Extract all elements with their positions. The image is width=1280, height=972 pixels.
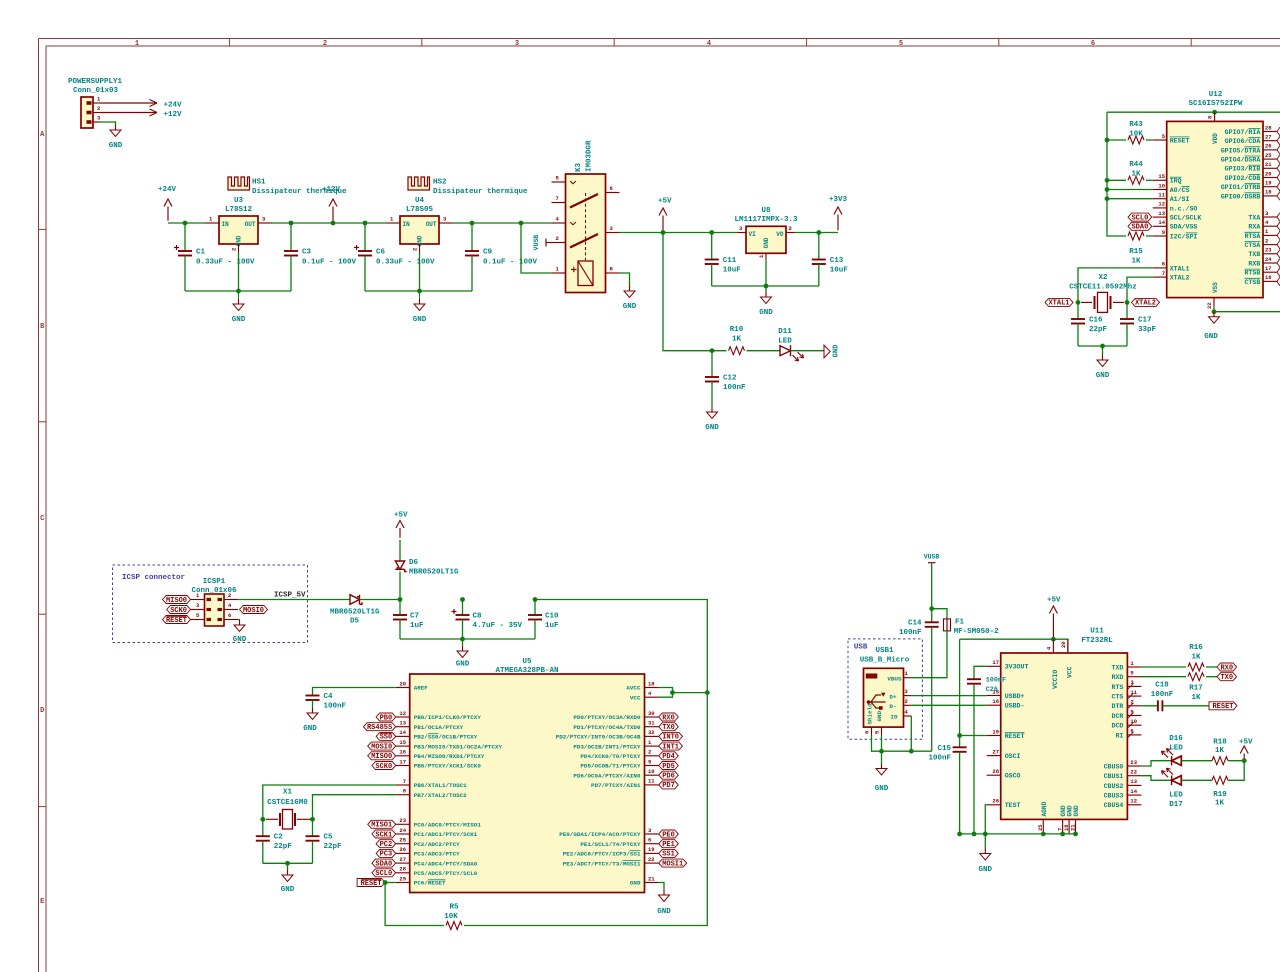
svg-text:RESET: RESET [361,880,382,888]
net label SDA0 u5 [372,859,396,868]
wire X1 gnd stem [287,863,289,870]
svg-text:GPIO0/DSRB: GPIO0/DSRB [1221,193,1261,200]
label C13 [830,257,849,275]
wire usb gnd stem [881,751,883,763]
wire shield gnd [872,735,932,751]
wire XTAL2 [1127,277,1153,302]
wire R16 out [1206,666,1217,668]
ground U3 [238,299,240,304]
ground U5 [663,890,665,895]
svg-text:30: 30 [648,710,655,717]
svg-text:CTSA: CTSA [1244,242,1260,249]
label U5 [495,658,558,675]
svg-text:ID: ID [890,714,898,721]
junction XTAL1 [1076,300,1081,305]
svg-text:GPIO6/CDA: GPIO6/CDA [1225,138,1261,145]
svg-text:10: 10 [648,768,655,775]
svg-text:AGND: AGND [1041,801,1048,816]
svg-text:31: 31 [648,720,655,727]
svg-text:21: 21 [1069,824,1076,831]
label HS2 [433,179,528,197]
resistor R15 [1128,232,1144,240]
svg-text:22pF: 22pF [274,843,293,851]
svg-text:PC3/ADC3/PTCY: PC3/ADC3/PTCY [414,851,460,858]
crystal X1 CSTCE16M0 [266,810,311,830]
junction gnd c26 [972,832,977,837]
connector USB1 USB_B_Micro [864,668,912,735]
svg-text:1uF: 1uF [545,622,559,630]
ic U5 ATMEGA328PB-AN [396,674,659,893]
svg-text:PE3/ADC7/PTCY/T3/MOSI1: PE3/ADC7/PTCY/T3/MOSI1 [563,860,641,867]
svg-text:17: 17 [1265,265,1272,272]
svg-text:GND: GND [705,424,719,432]
svg-text:RESET: RESET [1170,137,1190,144]
svg-text:U8: U8 [761,207,771,215]
svg-text:26: 26 [992,798,999,805]
svg-text:PB3/MOSI0/TXD1/OC2A/PTCXY: PB3/MOSI0/TXD1/OC2A/PTCXY [414,743,503,750]
svg-text:LED: LED [1169,745,1183,753]
wire C1 bottom [184,256,186,292]
label C4 [324,693,347,711]
svg-text:24: 24 [399,827,406,834]
svg-text:PB5/PTCXY/XCK1/SCK0: PB5/PTCXY/XCK1/SCK0 [414,763,482,770]
svg-text:1K: 1K [1131,171,1141,179]
capacitor C1 [174,245,192,256]
label C10 [545,613,559,631]
svg-text:23: 23 [1265,247,1272,254]
ground C4 [312,708,314,713]
junction vccio [1051,637,1056,642]
svg-text:C10: C10 [545,613,559,621]
crystal X2 CSTCE11.0592Mhz [1081,292,1124,312]
net label MOSI0 u5 [368,742,396,751]
ground K3 [629,286,631,291]
wire C16 top [1077,302,1079,319]
svg-text:1K: 1K [1191,694,1201,702]
junction X1 left [260,817,265,822]
svg-text:C2: C2 [274,834,284,842]
svg-text:C3: C3 [302,249,312,257]
svg-text:RXA: RXA [1248,224,1260,231]
resistor R16 [1188,663,1204,671]
svg-text:20: 20 [1265,170,1272,177]
svg-text:19: 19 [1265,180,1272,187]
label C3 [302,249,357,267]
svg-text:1K: 1K [732,336,742,344]
wire VCC node [673,692,708,694]
diode D5 MBR0520LT1G [350,595,362,605]
svg-text:2: 2 [789,225,792,232]
connector ICSP1 Conn_01x06 [191,592,239,626]
svg-text:D5: D5 [350,618,360,626]
svg-text:RESET: RESET [1005,733,1025,740]
wire DTR [1141,705,1158,707]
capacitor C4 [306,696,320,701]
wire XTAL1 [1078,268,1153,303]
svg-text:+5V: +5V [1239,739,1253,747]
wire +24V rail to U3 [168,222,205,224]
svg-text:100nF: 100nF [986,677,1006,685]
ground U4 [419,299,421,304]
svg-text:DCR: DCR [1112,713,1124,720]
svg-text:D+: D+ [889,693,897,700]
wire C9 bottom [471,256,473,292]
capacitor C17 [1120,319,1134,324]
svg-text:14: 14 [1130,788,1137,795]
wire ICSP_5V to VCC rail [535,600,707,693]
svg-text:U4: U4 [415,197,425,205]
svg-text:U11: U11 [1090,628,1104,636]
net label PE0 u5r [659,830,679,839]
power flag +5V [658,198,672,231]
svg-text:1K: 1K [1215,800,1225,808]
svg-text:XTAL1: XTAL1 [1048,300,1069,308]
wire K3 pin8 gnd [620,273,630,286]
junction gnd test [983,832,988,837]
label C15 [928,745,951,763]
resistor R17 [1188,673,1204,681]
label U12 [1188,91,1243,108]
label ICSP1 [191,578,237,595]
svg-text:SCK0: SCK0 [170,607,187,615]
net label INT0 u5r [659,732,683,741]
junction C9 [470,221,475,226]
label D11 [778,328,792,346]
wire D16 to R18 [1181,760,1212,762]
svg-text:+5V: +5V [394,512,408,520]
capacitor C3 [284,251,298,256]
svg-text:+5V: +5V [658,198,672,206]
svg-text:5: 5 [899,40,903,48]
junction X1 right [310,817,315,822]
svg-text:Dissipateur thermique: Dissipateur thermique [433,188,528,196]
svg-text:R17: R17 [1189,684,1203,692]
wire C11 bottom [711,264,713,286]
svg-text:23: 23 [399,817,406,824]
svg-text:PC5/ADC5/PTCY/SCL0: PC5/ADC5/PTCY/SCL0 [414,870,478,877]
svg-text:3V3OUT: 3V3OUT [1005,664,1029,671]
svg-text:MISO1: MISO1 [371,822,392,830]
wire VDD rail [1107,111,1280,113]
ground U8 [765,292,767,297]
svg-text:R44: R44 [1129,161,1143,169]
svg-text:GND: GND [1073,805,1080,816]
junction VCC rail [705,690,710,695]
junction X2 gnd [1100,344,1105,349]
svg-text:6: 6 [228,612,231,619]
label R17 [1189,684,1203,702]
wire caps gnd rail [400,638,535,640]
junction R43 [1105,138,1110,143]
junction usb id [909,749,914,754]
label X1 [267,789,308,808]
net label RX0 u5r [659,713,679,722]
relay K3 IM03DGR [552,174,620,293]
svg-text:6: 6 [864,731,871,734]
wire vcc rail u11 [960,639,1068,653]
svg-text:PB7/XTAL2/TOSC2: PB7/XTAL2/TOSC2 [414,792,467,799]
label C16 [1089,317,1108,335]
svg-text:PD6/OC0A/PTCXY/AIN0: PD6/OC0A/PTCXY/AIN0 [573,772,641,779]
svg-text:TEST: TEST [1005,802,1021,809]
svg-text:2: 2 [556,235,559,242]
wire U8 gnd stem [765,259,767,287]
wire C13 bottom [818,264,820,286]
svg-text:SDA/VSS: SDA/VSS [1170,224,1198,231]
label C26 [986,677,1006,694]
power flag +24V [158,186,177,221]
junction C11 [709,230,714,235]
junction gnd c15 [957,832,962,837]
svg-text:22: 22 [648,856,655,863]
svg-text:GND: GND [303,725,317,733]
svg-text:USB1: USB1 [875,647,894,655]
wire TXD [1141,666,1186,668]
capacitor C10 [528,615,542,620]
svg-text:C6: C6 [376,249,386,257]
net label PD6 u5r [659,771,679,780]
svg-text:SCL0: SCL0 [1131,214,1148,222]
svg-text:E: E [40,898,44,906]
svg-text:TX0: TX0 [1220,674,1233,682]
wire D5 to D6 [360,599,401,601]
svg-text:4: 4 [707,40,711,48]
diode D11 LED [780,345,804,361]
label D17 [1169,792,1183,810]
svg-text:GPIO3/RIB: GPIO3/RIB [1225,166,1261,173]
net label PC3 u5 [376,849,396,858]
svg-text:13: 13 [1130,778,1137,785]
svg-text:0.33uF - 100V: 0.33uF - 100V [196,259,255,267]
svg-text:n.c./SO: n.c./SO [1170,205,1198,212]
svg-text:K3: K3 [575,162,583,172]
svg-text:22pF: 22pF [1089,326,1108,334]
svg-text:PD4: PD4 [662,753,675,761]
wire U11 gnd rail [960,833,1076,835]
svg-text:0.1uF - 100V: 0.1uF - 100V [302,259,357,267]
wire C10 bottom [534,620,536,640]
wire D17 to R19 [1181,779,1212,781]
svg-text:GND: GND [1096,372,1110,380]
net label MISO0 u5 [368,752,396,761]
junction U3 gnd [236,289,241,294]
svg-text:RX0: RX0 [1220,664,1233,672]
net label RS485S u5 [364,723,396,732]
svg-text:CSTCE11.0592Mhz: CSTCE11.0592Mhz [1069,284,1137,292]
label D16 [1169,735,1183,753]
svg-text:PE1/SCL1/T4/PTCXY: PE1/SCL1/T4/PTCXY [580,841,641,848]
wire R43 right [1146,139,1153,141]
svg-text:XTAL2: XTAL2 [1135,300,1156,308]
svg-text:32: 32 [648,729,655,736]
wire RESET stub [385,882,396,884]
junction +5V [661,230,666,235]
svg-text:PE2/ADC6/PTCY/ICP3/SS1: PE2/ADC6/PTCY/ICP3/SS1 [563,851,641,858]
wire AVCC [659,688,673,693]
wire R44 left [1107,179,1126,181]
svg-text:C11: C11 [723,257,737,265]
svg-text:F1: F1 [955,619,965,627]
resistor R5 [446,922,462,930]
svg-text:GND: GND [630,880,641,887]
svg-text:12: 12 [399,710,406,717]
svg-text:GND: GND [833,345,841,358]
label C18 [1151,682,1174,700]
junction U4 gnd [417,289,422,294]
label C9 [483,249,538,267]
svg-text:25: 25 [399,837,406,844]
svg-text:15: 15 [399,739,406,746]
svg-text:USB_B_Micro: USB_B_Micro [860,657,910,665]
wire CBUS1 [1141,776,1171,781]
svg-text:20: 20 [399,680,406,687]
svg-text:POWERSUPPLY1: POWERSUPPLY1 [68,78,123,86]
net label PB0 u5 [376,713,396,722]
svg-text:CSTCE16M0: CSTCE16M0 [267,799,308,807]
capacitor C26 [967,679,981,684]
net label SCL0 u5 [372,869,396,878]
svg-text:OSCO: OSCO [1005,773,1021,780]
svg-text:28: 28 [399,866,406,873]
svg-text:1K: 1K [1131,258,1141,266]
svg-text:PC3: PC3 [380,851,393,859]
svg-text:1K: 1K [1215,747,1225,755]
net label RESET u5 [357,879,385,888]
junction VDD [1212,110,1217,115]
wire C2 bottom [262,841,264,864]
svg-text:10K: 10K [444,913,458,921]
svg-text:PB4/MISO0/RXD1/PTCXY: PB4/MISO0/RXD1/PTCXY [414,753,485,760]
power flag +5V u11 [1047,597,1061,638]
ground U11 [984,849,986,854]
svg-text:A1/SI: A1/SI [1170,196,1190,203]
junction +5V led [1242,758,1247,763]
svg-text:DCD: DCD [1112,723,1124,730]
svg-text:1uF: 1uF [410,622,424,630]
label C7 [410,613,424,631]
net label INT1 u5r [659,742,683,751]
svg-text:PD0/PTCXY/OC3A/RXD0: PD0/PTCXY/OC3A/RXD0 [573,714,641,721]
svg-text:PE0/SDA1/ICP4/ACO/PTCXY: PE0/SDA1/ICP4/ACO/PTCXY [559,831,641,838]
junction C13 [816,230,821,235]
svg-text:INT1: INT1 [662,743,679,751]
wire X1 gnd rail [263,862,313,864]
fuse F1 MF-SM050-2 [944,619,951,631]
wire R44 right [1146,179,1153,181]
wire U12 left rail [1107,112,1126,236]
label C2 [274,834,293,852]
wire X2 gnd rail [1078,345,1127,347]
ic U12 SC16IS752IPW [1153,112,1280,309]
wire 3V3OUT [974,666,987,679]
graphic USB box [848,639,922,739]
svg-text:21: 21 [648,875,655,882]
svg-text:12: 12 [1158,201,1165,208]
wire R19 out [1228,761,1244,781]
ic U11 FT232RL [987,639,1142,834]
svg-text:0.1uF - 100V: 0.1uF - 100V [483,259,538,267]
wire pin3 to ground [100,122,116,125]
wire U4 gnd rail [365,290,472,292]
svg-text:VCC: VCC [1066,666,1073,678]
svg-text:C18: C18 [1155,682,1169,690]
svg-text:16: 16 [1265,274,1272,281]
svg-text:R5: R5 [449,904,459,912]
svg-text:4.7uF - 35V: 4.7uF - 35V [473,622,523,630]
svg-text:GPIO1/DTRB: GPIO1/DTRB [1221,184,1261,191]
label C11 [723,257,742,275]
junction K3 pin1 branch [519,221,524,226]
junction gnd agnd [1041,832,1046,837]
connector POWERSUPPLY1 [81,96,101,128]
svg-text:RI: RI [1115,732,1123,739]
svg-text:MOSI0: MOSI0 [243,607,264,615]
capacitor C13 [812,260,826,265]
net label SS0 u5 [376,732,396,741]
svg-text:12: 12 [1130,798,1137,805]
svg-text:LED: LED [778,338,792,346]
junction A0 [1105,187,1110,192]
svg-text:2: 2 [323,40,327,48]
wire VSS [1213,307,1215,312]
svg-text:VO: VO [776,231,784,238]
label D6 [409,559,459,577]
svg-text:CBUS4: CBUS4 [1104,802,1124,809]
svg-text:CBUS0: CBUS0 [1104,763,1124,770]
ground C12 [711,407,713,412]
svg-text:C8: C8 [473,613,483,621]
wire C12 top [711,351,713,377]
svg-text:18: 18 [1265,189,1272,196]
net label SCK1 u5 [372,830,396,839]
svg-text:D11: D11 [778,328,792,336]
svg-text:11: 11 [648,778,655,785]
wire +5V down [663,233,727,351]
svg-text:SDA0: SDA0 [375,860,392,868]
svg-text:+5V: +5V [1047,597,1061,605]
wire TEST [985,805,986,834]
wire R18 out [1228,760,1244,762]
ground ICSP [239,620,241,625]
wire C3 top [290,223,292,251]
svg-text:U5: U5 [522,658,532,666]
junction X1 gnd [285,861,290,866]
svg-text:2: 2 [1265,237,1268,244]
capacitor C12 [705,377,719,382]
svg-text:INT0: INT0 [662,734,679,742]
net label XTAL1 [1045,298,1073,307]
svg-text:MOSI0: MOSI0 [371,743,392,751]
junction AVCC VCC [670,690,675,695]
svg-text:PC2: PC2 [380,841,393,849]
svg-text:PE1: PE1 [662,841,675,849]
label R15 [1129,248,1143,266]
wire C4 bottom [312,700,314,708]
wire gnd stub U4 [419,291,421,299]
wire to F1 [932,609,947,619]
svg-text:CTS: CTS [1112,694,1124,701]
net label SS1 u5r [659,849,679,858]
wire D+ to U11 [911,695,986,697]
svg-text:VSS: VSS [1212,282,1219,293]
svg-text:C13: C13 [830,257,844,265]
svg-text:GND: GND [763,237,770,248]
label C14 [899,620,922,638]
svg-text:R18: R18 [1213,739,1227,747]
wire AREF [313,688,396,696]
heatsink HS2 [408,177,430,190]
wire C15 bottom [959,752,961,834]
